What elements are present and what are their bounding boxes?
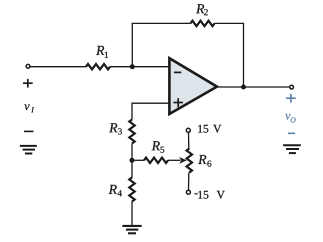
node A junction <box>130 64 135 69</box>
resistor R4 <box>129 178 134 202</box>
ground (output) <box>283 145 301 153</box>
resistor R2 <box>191 21 215 26</box>
wiper arrow to R6 <box>168 159 181 161</box>
wire op-amp output to terminal <box>216 86 290 88</box>
-15V supply terminal <box>188 173 190 190</box>
wire node B to R4 <box>131 160 133 177</box>
plus label (input) <box>23 79 33 88</box>
resistor R5 <box>134 159 144 161</box>
resistor R3 <box>129 120 134 144</box>
+15V supply terminal <box>188 133 190 149</box>
potentiometer R6 <box>187 149 192 173</box>
node B junction <box>130 158 135 163</box>
output node junction <box>241 85 246 90</box>
node v_I label <box>24 104 29 110</box>
ground (input) <box>20 146 37 154</box>
wire node A up to feedback loop <box>131 23 133 66</box>
wire R3 to node B <box>131 144 133 161</box>
resistor R1 <box>86 64 110 69</box>
op-amp U1 <box>169 58 217 114</box>
minus label (input) <box>24 130 33 132</box>
input terminal <box>26 64 30 68</box>
wire R2 to output node (right vertical) <box>215 23 244 87</box>
output terminal <box>290 85 294 89</box>
minus label (output) <box>288 132 295 134</box>
ground (bottom) <box>122 226 141 233</box>
wire input to R1 <box>30 66 86 68</box>
wire top-left to R2 <box>132 22 191 24</box>
wire op-amp non-inverting input <box>132 103 170 119</box>
wire R4 to ground <box>131 202 133 226</box>
plus label (output) <box>286 94 296 103</box>
wire R1 to op-amp inverting input <box>110 66 170 68</box>
node v_O label <box>285 114 290 120</box>
